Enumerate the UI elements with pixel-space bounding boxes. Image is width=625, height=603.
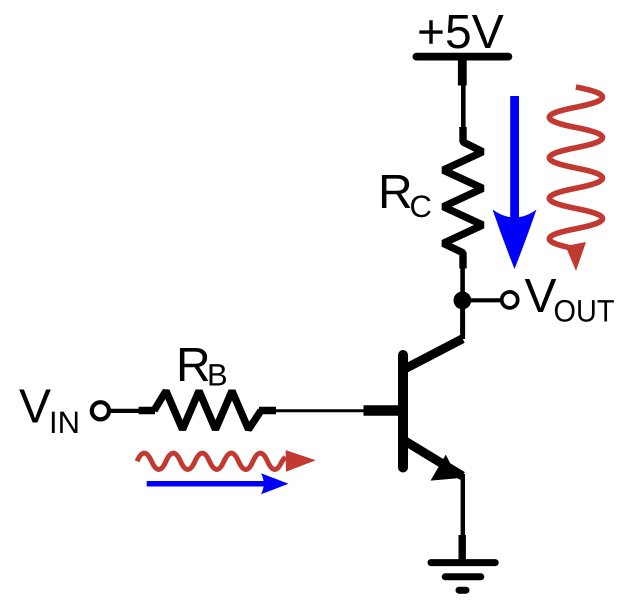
transistor Q1 emitter lead xyxy=(405,441,463,476)
transistor Q1 collector lead xyxy=(406,339,463,369)
resistor RB xyxy=(154,391,261,429)
ground pin stub xyxy=(459,535,466,560)
wire emitter to ground xyxy=(461,474,465,537)
svg-text:B: B xyxy=(207,358,228,393)
collector current arrow (blue) xyxy=(510,96,519,225)
output signal squiggle (red) xyxy=(549,87,602,249)
transistor Q1 base bar xyxy=(398,355,408,468)
svg-text:V: V xyxy=(19,381,51,434)
svg-text:+5V: +5V xyxy=(417,6,504,59)
wire node to collector xyxy=(460,300,465,339)
resistor RB left stub xyxy=(139,407,155,414)
input current arrow (blue) xyxy=(147,481,266,487)
terminal VOUT (open circle) xyxy=(502,292,518,308)
transistor Q1 base lead xyxy=(364,405,402,416)
wire VIN terminal to RB xyxy=(109,409,141,413)
label VOUT xyxy=(525,270,615,329)
resistor RC xyxy=(443,127,483,269)
wire RB to base xyxy=(274,409,366,412)
wire RC to node xyxy=(460,266,465,300)
ground symbol xyxy=(431,563,495,591)
terminal VIN (open circle) xyxy=(92,402,109,419)
label RC xyxy=(378,166,432,224)
wire node to VOUT terminal xyxy=(462,298,500,302)
svg-text:R: R xyxy=(176,339,211,392)
output signal squiggle arrowhead (red) xyxy=(566,242,587,271)
input signal squiggle arrowhead (red) xyxy=(286,450,316,472)
transistor Q1 emitter arrow xyxy=(431,455,458,481)
collector current arrowhead (blue) xyxy=(493,210,537,270)
input current arrowhead (blue) xyxy=(261,473,289,494)
svg-text:IN: IN xyxy=(49,405,80,440)
input signal squiggle (red) xyxy=(137,453,285,469)
label VIN xyxy=(19,381,80,441)
svg-text:R: R xyxy=(378,166,413,219)
resistor RB right stub xyxy=(259,407,276,414)
power pin stub xyxy=(458,56,467,86)
svg-text:C: C xyxy=(410,189,432,224)
svg-text:V: V xyxy=(525,270,557,323)
svg-text:OUT: OUT xyxy=(554,294,615,329)
power rail +5V bar xyxy=(416,53,508,61)
label RB xyxy=(176,339,228,393)
wire +5V to RC xyxy=(461,85,466,128)
node (collector junction) xyxy=(454,292,472,310)
